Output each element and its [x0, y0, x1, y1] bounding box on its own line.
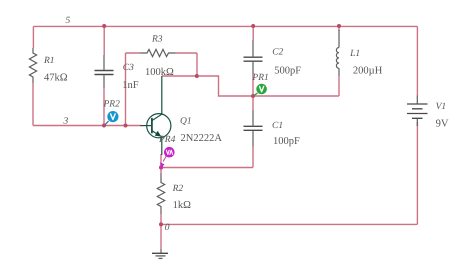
svg-text:2N2222A: 2N2222A: [181, 133, 223, 144]
svg-text:5: 5: [66, 16, 71, 26]
svg-text:100pF: 100pF: [273, 136, 300, 147]
svg-text:C2: C2: [272, 47, 283, 57]
svg-text:100kΩ: 100kΩ: [145, 67, 174, 78]
svg-text:V1: V1: [436, 102, 447, 112]
svg-text:200µH: 200µH: [353, 66, 383, 77]
svg-text:PR1: PR1: [251, 73, 268, 83]
svg-text:L1: L1: [349, 49, 360, 59]
svg-text:Q1: Q1: [180, 117, 192, 127]
svg-text:500pF: 500pF: [274, 66, 301, 77]
svg-text:PR4: PR4: [158, 135, 176, 145]
svg-text:C1: C1: [272, 121, 283, 131]
svg-text:9V: 9V: [436, 119, 449, 130]
svg-text:R1: R1: [43, 56, 55, 66]
svg-text:3: 3: [63, 117, 69, 127]
svg-text:1nF: 1nF: [122, 80, 139, 91]
svg-text:R2: R2: [172, 184, 184, 194]
svg-text:R3: R3: [151, 35, 163, 45]
svg-text:PR2: PR2: [103, 100, 121, 110]
svg-text:1kΩ: 1kΩ: [173, 200, 192, 211]
svg-text:0: 0: [165, 223, 170, 233]
svg-text:47kΩ: 47kΩ: [44, 72, 68, 83]
svg-text:C3: C3: [123, 63, 134, 73]
